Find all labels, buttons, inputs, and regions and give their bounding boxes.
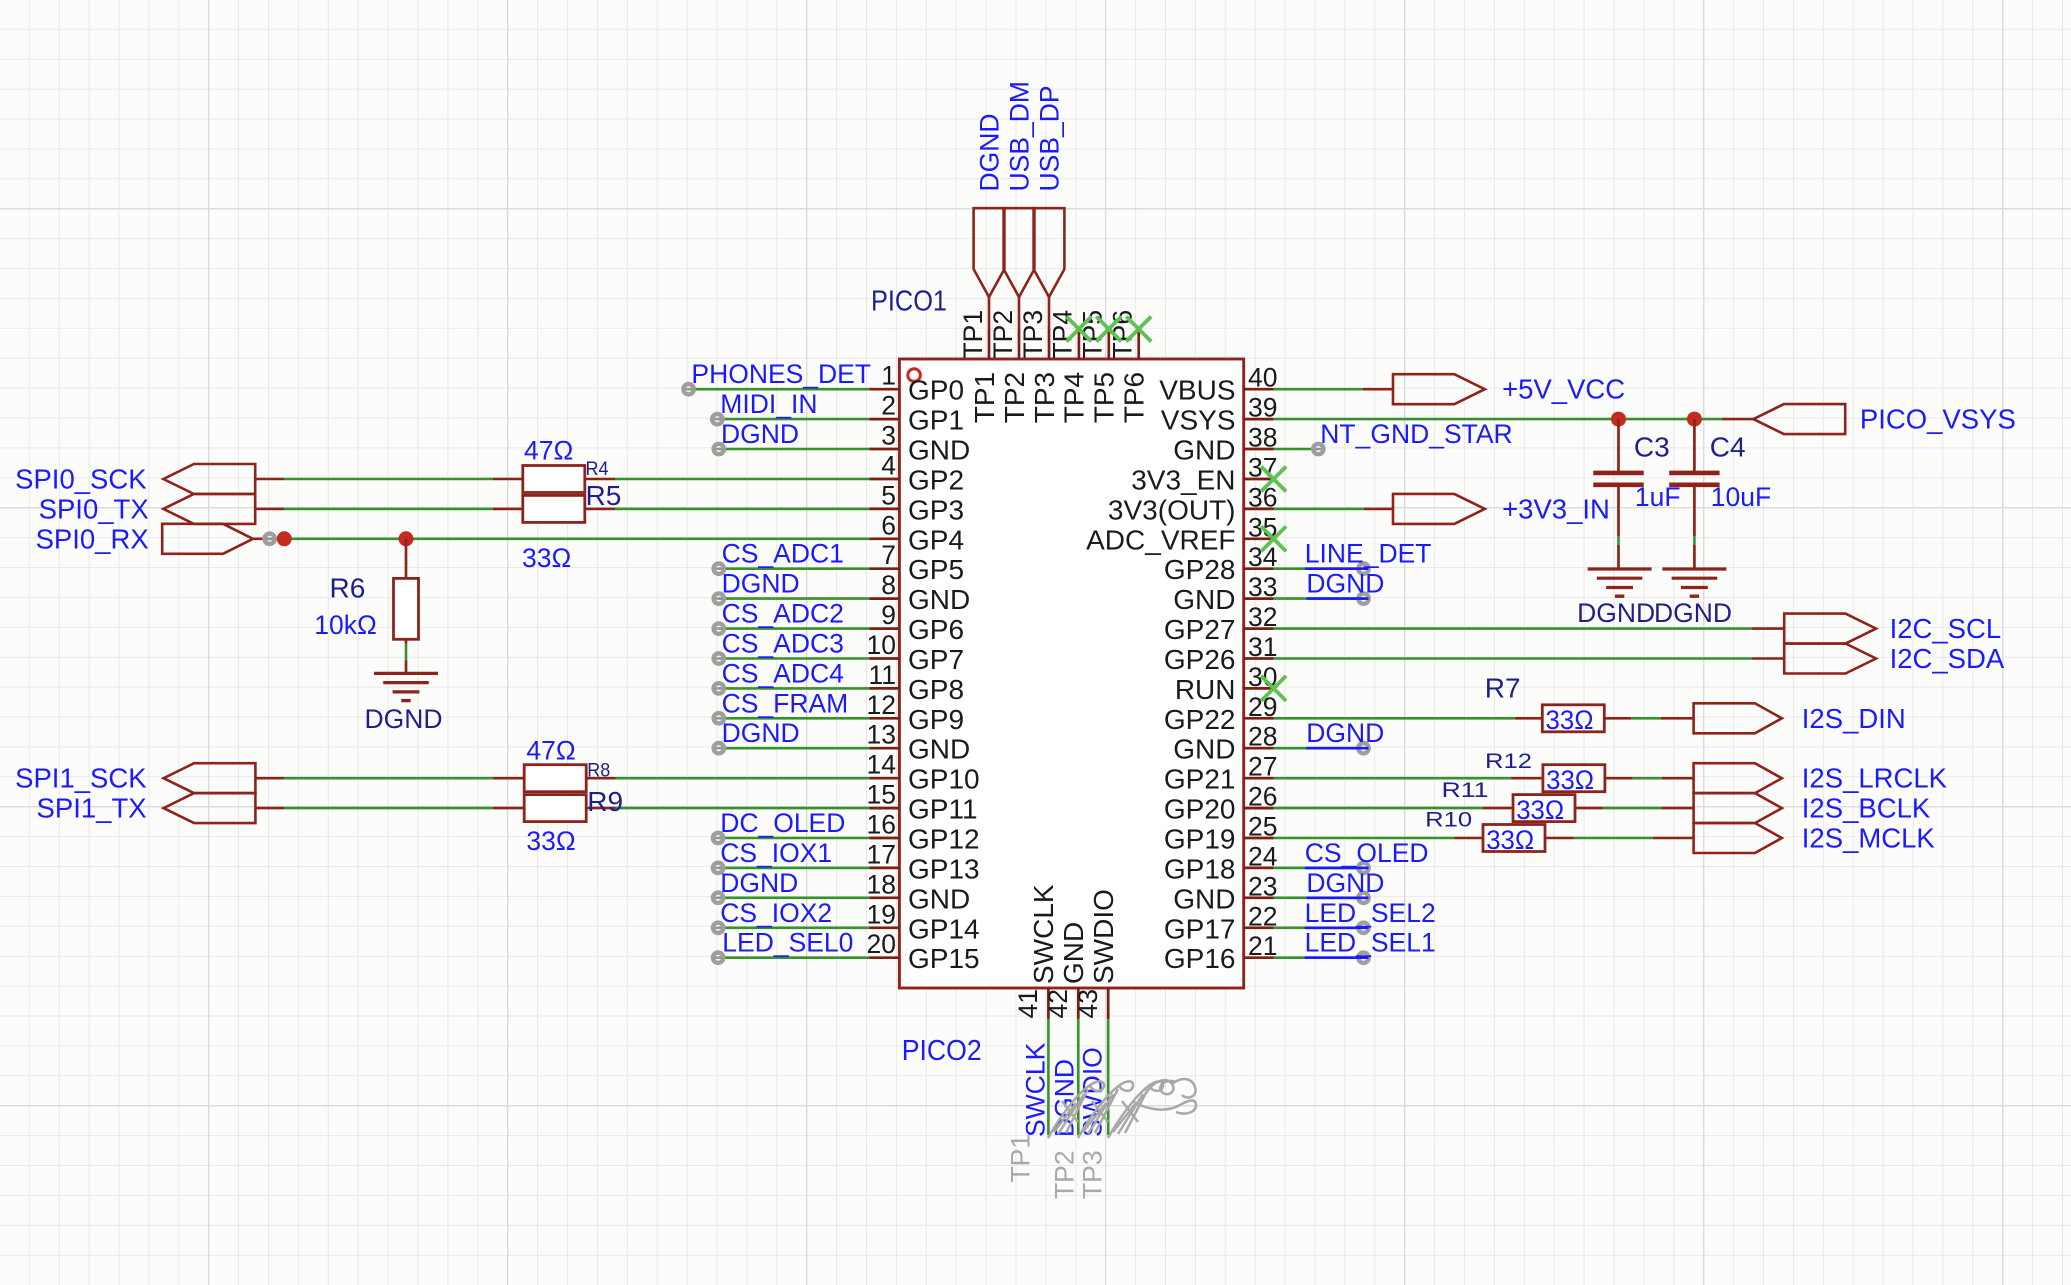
pin 41 (SWCLK) bottom	[1013, 884, 1059, 1019]
svg-text:GND: GND	[1173, 734, 1235, 765]
svg-text:TP1: TP1	[958, 310, 988, 359]
wire net DGND pin3	[719, 448, 870, 451]
svg-text:SPI1_SCK: SPI1_SCK	[15, 763, 147, 794]
net port ring pin 19	[713, 923, 723, 933]
svg-text:R11: R11	[1442, 779, 1489, 802]
svg-text:SPI0_TX: SPI0_TX	[39, 493, 149, 524]
svg-text:SWCLK: SWCLK	[1021, 1042, 1051, 1137]
svg-text:43: 43	[1073, 989, 1103, 1018]
net label I2S_MCLK	[1802, 823, 1936, 854]
pin 16 (GP12) left	[867, 810, 980, 855]
net flag I2C_SDA	[1784, 644, 1876, 674]
net port ring pin 9	[714, 623, 724, 633]
svg-text:DGND: DGND	[1306, 718, 1384, 748]
net flag I2C_SCL	[1784, 614, 1876, 644]
net label +5V_VCC	[1502, 374, 1625, 405]
svg-text:15: 15	[867, 780, 896, 810]
svg-text:TP2: TP2	[988, 310, 1018, 359]
svg-text:GP12: GP12	[908, 824, 980, 855]
svg-text:GND: GND	[908, 883, 970, 914]
svg-text:GP7: GP7	[908, 644, 964, 675]
wire segment	[1545, 837, 1574, 840]
pin 9 (GP6) left	[870, 600, 965, 645]
pin 6 (GP4) left	[870, 510, 965, 555]
net label CS_FRAM pin 12	[722, 688, 849, 718]
wire R6 to ground	[405, 644, 408, 661]
net label I2S_DIN	[1802, 703, 1906, 734]
pin 4 TP4 top	[1048, 310, 1090, 423]
svg-text:DGND: DGND	[1306, 868, 1384, 898]
net label LED_SEL0 pin 20	[722, 928, 853, 958]
reference designator PICO1	[871, 286, 947, 318]
wire net DGND (bottom)	[1077, 1019, 1080, 1135]
wire segment	[1662, 777, 1694, 780]
net label SPI0_RX	[36, 523, 149, 554]
junction dot SPI0_RX flag	[277, 531, 292, 546]
svg-text:DGND: DGND	[722, 569, 800, 599]
wire R4 to GP2	[615, 478, 870, 481]
ground label DGND (C3)	[1577, 598, 1655, 628]
label R4	[586, 458, 609, 480]
pin 8 (GND) left	[870, 570, 971, 615]
svg-text:GP16: GP16	[1164, 943, 1236, 974]
wire 3V3OUT to +3V3_IN flag	[1274, 508, 1364, 511]
svg-text:27: 27	[1248, 752, 1277, 782]
net port ring pin 7	[714, 564, 724, 574]
resistor R5	[523, 495, 585, 522]
net port ring pin 8	[714, 593, 724, 603]
net port ring pin 10	[714, 653, 724, 663]
pin 15 (GP11) left	[867, 780, 978, 825]
label R8	[587, 760, 610, 782]
wire GP21 to R12	[1274, 777, 1512, 780]
no-connect X on TP4	[1066, 317, 1091, 342]
label R5	[586, 480, 622, 511]
junction dot SPI0_RX / R6	[399, 531, 414, 546]
net port ring pin 22	[1358, 923, 1368, 933]
net label CS_IOX1 pin 17	[720, 838, 832, 868]
svg-text:GP19: GP19	[1164, 824, 1236, 855]
wire C3 to ground	[1617, 536, 1620, 545]
svg-text:47Ω: 47Ω	[524, 435, 573, 465]
svg-text:19: 19	[867, 899, 896, 929]
wire GP19 to R10	[1274, 837, 1455, 840]
net label SPI0_SCK	[15, 464, 147, 495]
svg-text:33: 33	[1248, 572, 1277, 602]
net port ring pin 1	[683, 384, 693, 394]
svg-text:DGND: DGND	[364, 704, 442, 734]
resistor R6 (vertical)	[394, 539, 419, 644]
net label SPI1_SCK	[15, 763, 147, 794]
wire segment	[1454, 837, 1483, 840]
net label SWDIO (bottom, rotated)	[1078, 1047, 1108, 1137]
wire net LED_SEL2	[1274, 926, 1364, 929]
wire net DGND pin28	[1274, 747, 1364, 750]
net flag SPI1_TX	[164, 793, 256, 823]
wire net I2C_SCL	[1274, 627, 1752, 630]
svg-text:LED_SEL1: LED_SEL1	[1305, 928, 1436, 958]
wire net SPI0_RX	[284, 537, 869, 540]
svg-text:SPI0_SCK: SPI0_SCK	[15, 464, 147, 495]
svg-text:3V3(OUT): 3V3(OUT)	[1108, 494, 1236, 525]
svg-text:R10: R10	[1425, 808, 1472, 831]
net label anchor line LED_SEL2 pin 22	[1305, 926, 1369, 929]
svg-text:SPI0_RX: SPI0_RX	[36, 523, 149, 554]
net label DGND pin 33	[1306, 569, 1384, 599]
svg-text:PICO2: PICO2	[902, 1035, 982, 1067]
no-connect X on pin 35	[1261, 526, 1286, 551]
svg-text:25: 25	[1248, 812, 1277, 842]
pin 5 (GP3) left	[870, 480, 965, 525]
pin 21 (GP16) right	[1164, 931, 1278, 974]
svg-text:GP4: GP4	[908, 524, 964, 555]
svg-text:GP13: GP13	[908, 853, 980, 884]
svg-text:23: 23	[1248, 871, 1277, 901]
svg-text:GP15: GP15	[908, 943, 980, 974]
svg-text:I2C_SDA: I2C_SDA	[1890, 643, 2005, 674]
pin 5 TP5 top	[1078, 310, 1120, 423]
wire segment	[1752, 657, 1784, 660]
net port ring pin 38	[1313, 444, 1323, 454]
wire segment	[1661, 717, 1694, 720]
pin 22 (GP17) right	[1164, 901, 1278, 944]
pin 2 (GP1) left	[870, 391, 965, 436]
svg-text:USB_DP: USB_DP	[1035, 85, 1065, 191]
net label CS_ADC2 pin 9	[722, 599, 844, 629]
pin 6 TP6 top	[1108, 310, 1150, 423]
wire VBUS to +5V_VCC flag	[1274, 388, 1363, 391]
net flag DGND (test point TP)	[974, 208, 1005, 329]
wire segment	[585, 508, 615, 511]
net label USB_DP (rotated)	[1035, 85, 1065, 191]
net label +3V3_IN	[1502, 493, 1610, 524]
pin 3 TP3 top	[1018, 310, 1060, 423]
svg-text:17: 17	[867, 839, 896, 869]
value 33Ω (R9)	[526, 826, 575, 856]
svg-text:32: 32	[1248, 602, 1277, 632]
svg-text:38: 38	[1248, 423, 1277, 453]
net label DGND pin 28	[1306, 718, 1384, 748]
svg-text:CS_ADC2: CS_ADC2	[722, 599, 844, 629]
pin 2 TP2 top	[988, 310, 1030, 423]
svg-text:3V3_EN: 3V3_EN	[1131, 465, 1235, 496]
gray scribble annotation	[1048, 1079, 1196, 1138]
net label DGND pin 18	[720, 868, 798, 898]
net label SPI1_TX	[37, 793, 147, 824]
net label LED_SEL1 pin 21	[1305, 928, 1436, 958]
wire R8 to GP10	[616, 777, 870, 780]
wire R7 to I2S_DIN flag	[1631, 717, 1661, 720]
svg-text:SWCLK: SWCLK	[1028, 884, 1059, 984]
pin 28 (GND) right	[1173, 722, 1277, 765]
label C3	[1634, 432, 1670, 463]
net port ring pin 28	[1358, 743, 1368, 753]
svg-text:CS_ADC3: CS_ADC3	[722, 629, 844, 659]
svg-text:DC_OLED: DC_OLED	[720, 808, 845, 838]
ground symbol DGND (C4)	[1662, 545, 1726, 596]
wire segment	[1752, 627, 1784, 630]
net label anchor line DGND pin 33	[1306, 597, 1368, 600]
svg-text:TP2: TP2	[1050, 1150, 1080, 1199]
pin 25 (GP19) right	[1164, 812, 1278, 855]
junction dot VSYS / C3	[1611, 412, 1626, 427]
svg-text:33Ω: 33Ω	[1516, 795, 1564, 825]
svg-text:VSYS: VSYS	[1161, 405, 1236, 436]
resistor R8	[524, 765, 586, 792]
svg-text:MIDI_IN: MIDI_IN	[720, 389, 817, 419]
wire segment	[1363, 388, 1393, 391]
svg-text:SPI1_TX: SPI1_TX	[37, 793, 147, 824]
wire net DGND pin33	[1274, 597, 1364, 600]
no-connect X on pin 37	[1261, 467, 1286, 492]
wire net LED_SEL1	[1274, 956, 1364, 959]
text TP1 (gray, rotated)	[1005, 1134, 1035, 1183]
svg-text:DGND: DGND	[1306, 569, 1384, 599]
ground label DGND (C4)	[1654, 598, 1732, 628]
wire net PHONES_DET	[689, 388, 870, 391]
net flag SPI1_SCK	[164, 763, 256, 793]
net label USB_DM (rotated)	[1005, 81, 1035, 191]
svg-text:GP10: GP10	[908, 764, 980, 795]
svg-text:29: 29	[1248, 692, 1277, 722]
svg-text:24: 24	[1248, 841, 1277, 871]
svg-text:33Ω: 33Ω	[1486, 825, 1534, 855]
text TP2 (gray, rotated)	[1050, 1150, 1080, 1199]
wire segment	[1605, 717, 1631, 720]
wire C4 to ground	[1693, 536, 1696, 545]
wire segment	[255, 807, 284, 810]
value 33Ω (R5)	[522, 543, 571, 573]
svg-text:TP1: TP1	[1005, 1134, 1035, 1183]
svg-text:22: 22	[1248, 901, 1277, 931]
wire net CS_OLED	[1274, 867, 1364, 870]
svg-text:33Ω: 33Ω	[522, 543, 571, 573]
wire segment	[585, 478, 615, 481]
label R6	[330, 573, 366, 604]
pin 27 (GP21) right	[1164, 752, 1278, 795]
net flag I2S_MCLK	[1694, 823, 1782, 853]
svg-text:3: 3	[881, 421, 896, 451]
net label anchor line DGND pin 23	[1306, 896, 1368, 899]
wire segment	[493, 777, 524, 780]
svg-text:14: 14	[867, 750, 896, 780]
label R9	[587, 786, 623, 817]
svg-text:13: 13	[867, 720, 896, 750]
label C4	[1710, 432, 1746, 463]
wire segment	[253, 537, 284, 540]
svg-text:GP21: GP21	[1164, 764, 1236, 795]
svg-text:DGND: DGND	[1577, 598, 1655, 628]
pin 30 (RUN) right	[1175, 662, 1278, 705]
pin 26 (GP20) right	[1164, 782, 1278, 825]
svg-text:42: 42	[1043, 989, 1073, 1018]
svg-text:GND: GND	[908, 435, 970, 466]
wire net SWDIO (bottom)	[1107, 1019, 1110, 1135]
ground label DGND (R6)	[364, 704, 442, 734]
wire net LINE_DET	[1274, 567, 1364, 570]
net flag +3V3_IN	[1393, 494, 1485, 524]
svg-text:31: 31	[1248, 632, 1277, 662]
net flag I2S_DIN	[1694, 703, 1782, 733]
svg-text:GP28: GP28	[1164, 554, 1236, 585]
net label SWCLK (bottom, rotated)	[1021, 1042, 1051, 1137]
svg-text:GP9: GP9	[908, 704, 964, 735]
wire segment	[1662, 807, 1694, 810]
wire net DGND	[1274, 896, 1364, 899]
net port ring pin 18	[713, 893, 723, 903]
pin 40 (VBUS) right	[1159, 363, 1277, 406]
svg-text:GND: GND	[1173, 883, 1235, 914]
pin 11 (GP8) left	[868, 660, 964, 705]
svg-text:R6: R6	[330, 573, 366, 604]
svg-text:GP5: GP5	[908, 554, 964, 585]
value 33Ω (R12)	[1546, 765, 1594, 795]
svg-text:12: 12	[867, 690, 896, 720]
svg-text:36: 36	[1248, 482, 1277, 512]
wire segment	[1722, 418, 1754, 421]
value 33Ω (R7)	[1546, 705, 1594, 735]
no-connect X on pin 30	[1261, 676, 1286, 701]
svg-text:GP18: GP18	[1164, 853, 1236, 884]
svg-text:LINE_DET: LINE_DET	[1305, 539, 1432, 569]
net label DGND pin 23	[1306, 868, 1384, 898]
wire R12 to I2S_LRCLK flag	[1633, 777, 1662, 780]
value 33Ω (R10)	[1486, 825, 1534, 855]
svg-text:GP2: GP2	[908, 465, 964, 496]
net label DGND (bottom, rotated)	[1050, 1059, 1080, 1137]
wire net SWCLK (bottom)	[1047, 1019, 1050, 1135]
net label I2S_LRCLK	[1802, 763, 1948, 794]
wire SPI1_SCK to R8	[284, 777, 493, 780]
net port ring pin 20	[713, 953, 723, 963]
net label DC_OLED pin 16	[720, 808, 845, 838]
wire segment	[1483, 807, 1513, 810]
net port ring pin 17	[713, 863, 723, 873]
wire segment	[1575, 807, 1603, 810]
svg-text:TP3: TP3	[1029, 372, 1060, 423]
value 1uF (C3)	[1635, 482, 1681, 512]
svg-text:5: 5	[881, 480, 896, 510]
svg-text:R5: R5	[586, 480, 622, 511]
net label LED_SEL2 pin 22	[1305, 898, 1436, 928]
wire net CS_IOX1	[718, 867, 869, 870]
svg-text:8: 8	[881, 570, 896, 600]
svg-text:33Ω: 33Ω	[1546, 765, 1594, 795]
wire R11 to I2S_BCLK flag	[1603, 807, 1662, 810]
net label CS_ADC1 pin 7	[722, 539, 844, 569]
wire net CS_ADC2	[719, 627, 870, 630]
net port ring SPI0_RX	[264, 534, 274, 544]
svg-text:I2C_SCL: I2C_SCL	[1890, 613, 2002, 644]
svg-text:9: 9	[881, 600, 896, 630]
value 47Ω (R8)	[526, 736, 575, 766]
svg-text:TP1: TP1	[969, 372, 1000, 423]
net label anchor line CS_OLED pin 24	[1305, 867, 1369, 870]
svg-text:R4: R4	[586, 458, 609, 480]
net flag USB_DM (test point TP)	[1004, 208, 1035, 329]
svg-text:PICO_VSYS: PICO_VSYS	[1860, 404, 2016, 435]
svg-text:+5V_VCC: +5V_VCC	[1502, 374, 1625, 405]
svg-text:GND: GND	[1173, 584, 1235, 615]
svg-text:GND: GND	[1058, 922, 1089, 984]
svg-text:33Ω: 33Ω	[1546, 705, 1594, 735]
resistor R10	[1483, 825, 1545, 852]
text TP3 (gray, rotated)	[1078, 1150, 1108, 1199]
label R10	[1425, 808, 1472, 831]
svg-text:GND: GND	[908, 584, 970, 615]
net label PHONES_DET pin 1	[691, 359, 871, 389]
resistor R7	[1542, 705, 1604, 732]
net label DGND pin 8	[722, 569, 800, 599]
net label I2S_BCLK	[1802, 793, 1931, 824]
svg-text:DGND: DGND	[721, 419, 799, 449]
no-connect X on TP6	[1126, 317, 1151, 342]
pin 17 (GP13) left	[867, 839, 980, 884]
wire net I2C_SDA	[1274, 657, 1752, 660]
svg-text:47Ω: 47Ω	[526, 736, 575, 766]
svg-text:10uF: 10uF	[1711, 482, 1771, 512]
svg-text:I2S_BCLK: I2S_BCLK	[1802, 793, 1931, 824]
svg-text:SWDIO: SWDIO	[1088, 889, 1119, 984]
svg-text:2: 2	[881, 391, 896, 421]
net flag SPI0_SCK	[163, 464, 255, 494]
svg-text:+3V3_IN: +3V3_IN	[1502, 493, 1610, 524]
pin 4 (GP2) left	[870, 451, 965, 496]
svg-text:GP17: GP17	[1164, 913, 1236, 944]
label R12	[1485, 750, 1532, 773]
wire segment	[586, 807, 615, 810]
capacitor C4	[1669, 419, 1719, 536]
svg-text:NT_GND_STAR: NT_GND_STAR	[1320, 419, 1512, 449]
svg-text:TP2: TP2	[999, 372, 1030, 423]
pin 33 (GND) right	[1173, 572, 1277, 615]
net label NT_GND_STAR pin 38	[1320, 419, 1512, 449]
label R11	[1442, 779, 1489, 802]
wire segment	[493, 508, 523, 511]
net port ring pin 12	[714, 713, 724, 723]
pin 24 (GP18) right	[1164, 841, 1278, 884]
wire net DC_OLED	[718, 837, 869, 840]
pin 43 (SWDIO) bottom	[1073, 889, 1119, 1019]
svg-text:GND: GND	[1173, 435, 1235, 466]
net flag USB_DP (test point TP)	[1034, 208, 1065, 329]
svg-text:CS_OLED: CS_OLED	[1305, 838, 1429, 868]
svg-text:DGND: DGND	[720, 868, 798, 898]
ground symbol DGND (R6)	[374, 660, 438, 700]
pin 19 (GP14) left	[867, 899, 980, 944]
svg-text:TP5: TP5	[1089, 372, 1120, 423]
svg-text:R9: R9	[587, 786, 623, 817]
svg-text:PHONES_DET: PHONES_DET	[691, 359, 871, 389]
net label PICO_VSYS	[1860, 404, 2016, 435]
svg-text:R8: R8	[587, 760, 610, 782]
svg-text:7: 7	[881, 540, 896, 570]
net label DGND (rotated)	[975, 113, 1005, 191]
net label CS_IOX2 pin 19	[720, 898, 832, 928]
wire net DGND	[719, 747, 870, 750]
svg-text:C3: C3	[1634, 432, 1670, 463]
value 47Ω (R4)	[524, 435, 573, 465]
wire segment	[1653, 837, 1694, 840]
svg-text:GP3: GP3	[908, 494, 964, 525]
pin 35 (ADC_VREF) right	[1086, 512, 1277, 555]
net label CS_ADC3 pin 10	[722, 629, 844, 659]
wire GP20 to R11	[1274, 807, 1483, 810]
svg-text:I2S_LRCLK: I2S_LRCLK	[1802, 763, 1948, 794]
svg-text:LED_SEL2: LED_SEL2	[1305, 898, 1436, 928]
net flag SPI0_RX	[162, 524, 253, 554]
svg-text:34: 34	[1248, 542, 1277, 572]
